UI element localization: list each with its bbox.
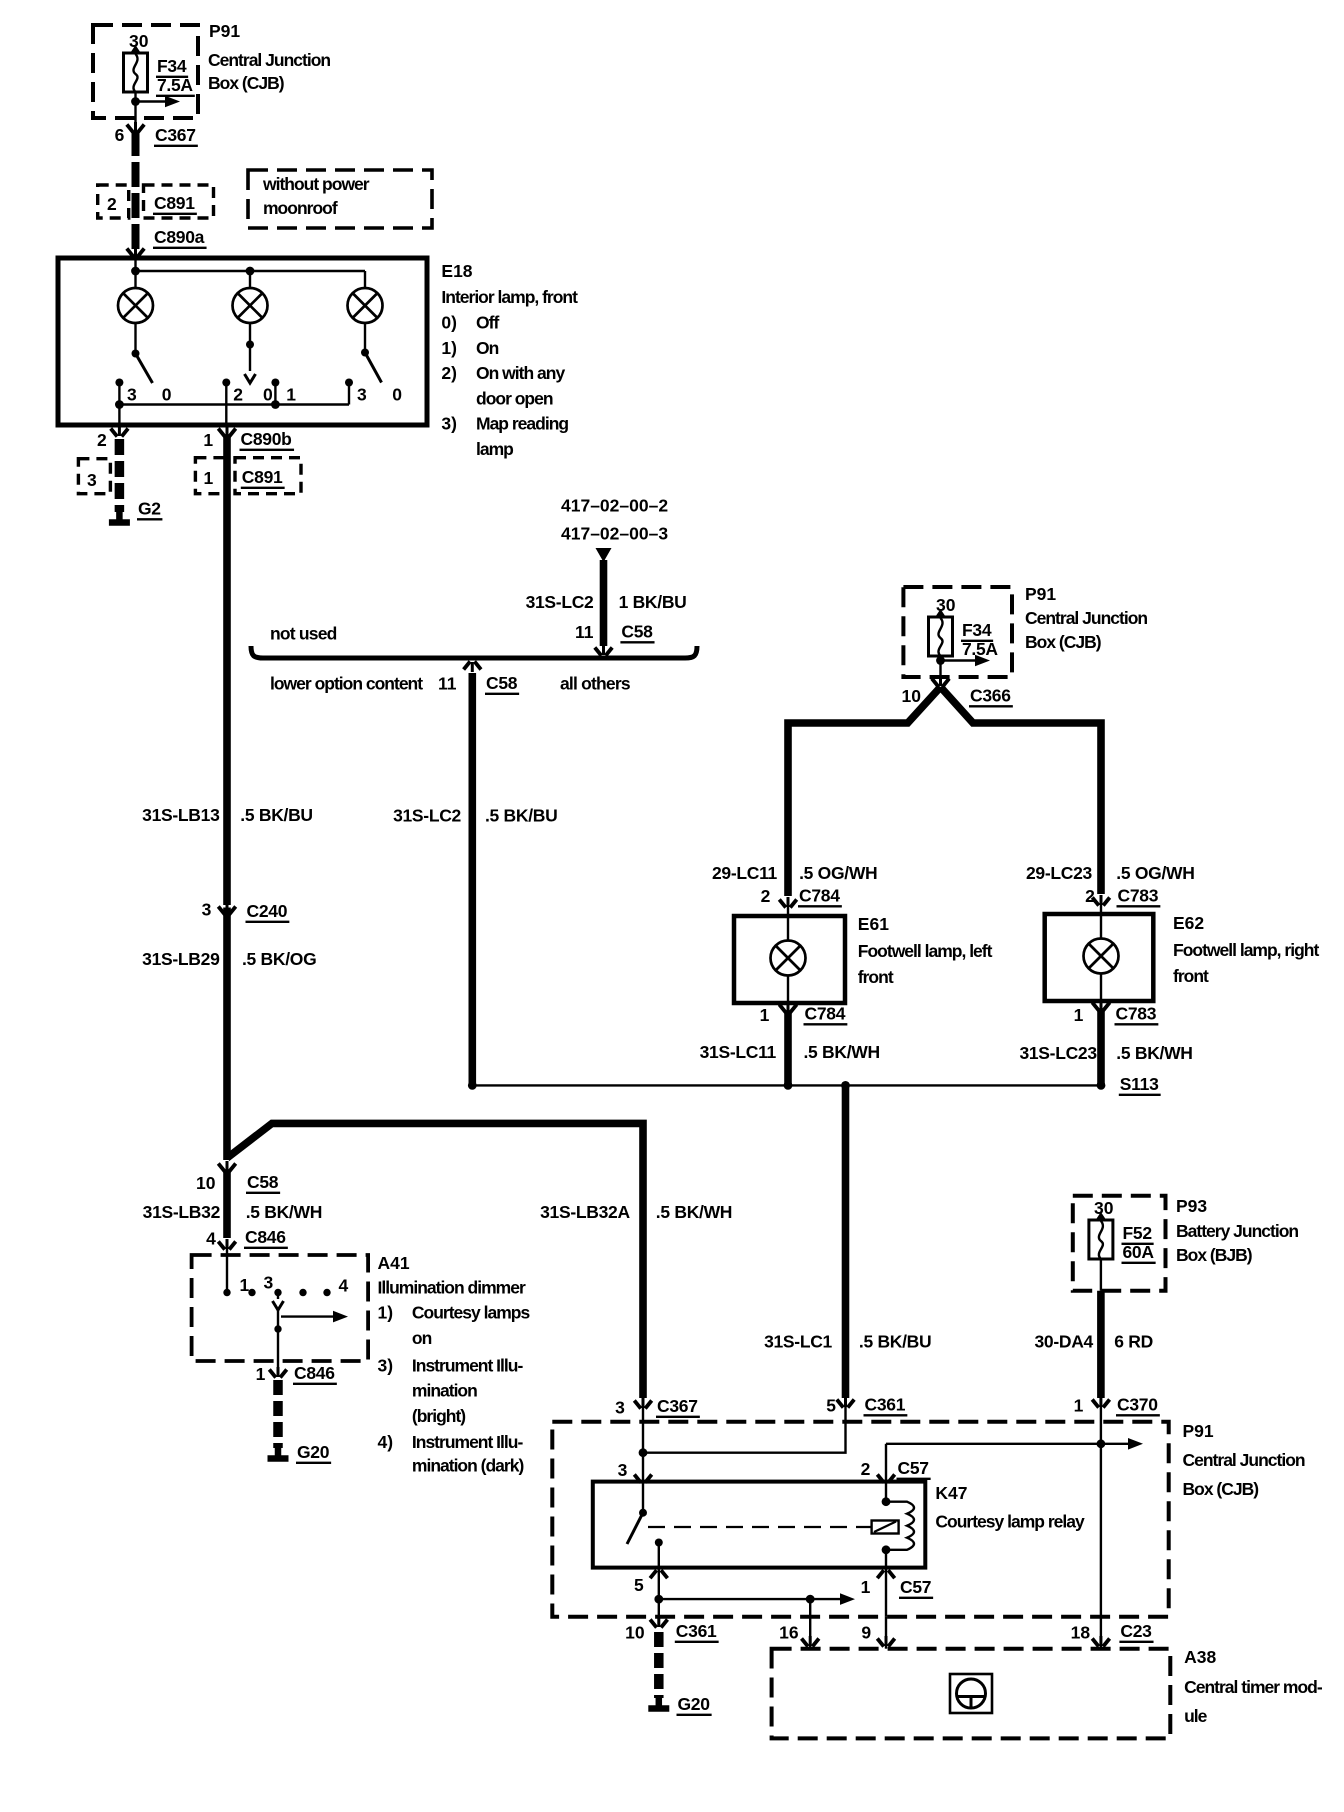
svg-text:3: 3 [618, 1460, 628, 1480]
svg-text:5: 5 [826, 1396, 836, 1416]
svg-text:A41: A41 [378, 1253, 410, 1273]
svg-text:C846: C846 [245, 1227, 286, 1247]
svg-text:.5 BK/WH: .5 BK/WH [656, 1202, 732, 1222]
svg-text:Central Junction: Central Junction [1025, 608, 1147, 628]
svg-text:1: 1 [203, 430, 213, 450]
svg-text:C784: C784 [805, 1004, 846, 1024]
svg-text:P91: P91 [1025, 584, 1056, 604]
svg-text:lower option content: lower option content [270, 674, 423, 694]
svg-text:0): 0) [441, 313, 457, 333]
svg-text:front: front [858, 967, 894, 987]
svg-text:mination: mination [412, 1381, 477, 1401]
svg-text:1: 1 [861, 1577, 871, 1597]
svg-text:.5 OG/WH: .5 OG/WH [799, 863, 877, 883]
svg-text:E61: E61 [858, 914, 889, 934]
svg-text:1: 1 [286, 385, 296, 405]
svg-text:30: 30 [1094, 1198, 1114, 1218]
svg-text:C891: C891 [154, 193, 195, 213]
svg-text:.5 BK/BU: .5 BK/BU [485, 806, 557, 826]
svg-text:.5 BK/OG: .5 BK/OG [242, 949, 316, 969]
svg-text:moonroof: moonroof [263, 198, 338, 218]
svg-text:mination (dark): mination (dark) [412, 1456, 524, 1476]
svg-text:3: 3 [87, 470, 97, 490]
svg-text:G2: G2 [138, 499, 161, 519]
svg-text:On with any: On with any [476, 363, 565, 383]
svg-text:C57: C57 [900, 1577, 931, 1597]
svg-text:C58: C58 [486, 673, 518, 693]
svg-text:(bright): (bright) [412, 1406, 465, 1426]
svg-text:Central timer mod-: Central timer mod- [1184, 1677, 1323, 1697]
svg-text:9: 9 [861, 1623, 871, 1643]
svg-text:F34: F34 [157, 56, 187, 76]
svg-text:C890b: C890b [241, 429, 292, 449]
svg-text:P93: P93 [1176, 1196, 1207, 1216]
svg-text:Box (CJB): Box (CJB) [1183, 1479, 1259, 1499]
svg-text:0: 0 [392, 385, 402, 405]
svg-text:door open: door open [476, 388, 553, 408]
svg-text:Footwell lamp, right: Footwell lamp, right [1173, 940, 1319, 960]
svg-text:K47: K47 [935, 1483, 967, 1503]
svg-text:10: 10 [625, 1623, 645, 1643]
svg-text:30-DA4: 30-DA4 [1034, 1332, 1093, 1352]
svg-text:Battery Junction: Battery Junction [1176, 1221, 1298, 1241]
svg-text:On: On [476, 338, 499, 358]
svg-text:1): 1) [378, 1303, 394, 1323]
svg-text:S113: S113 [1120, 1074, 1159, 1094]
svg-text:G20: G20 [297, 1442, 330, 1462]
svg-text:Illumination dimmer: Illumination dimmer [378, 1278, 526, 1298]
svg-text:1: 1 [760, 1005, 770, 1025]
svg-text:C367: C367 [657, 1396, 698, 1416]
svg-text:all others: all others [560, 674, 631, 694]
svg-text:1: 1 [256, 1364, 266, 1384]
svg-text:7.5A: 7.5A [962, 639, 998, 659]
svg-text:4: 4 [339, 1276, 349, 1296]
svg-text:11: 11 [438, 674, 457, 694]
svg-text:31S-LC2: 31S-LC2 [526, 592, 594, 612]
svg-text:P91: P91 [209, 21, 240, 41]
svg-text:not used: not used [270, 624, 337, 644]
svg-text:3): 3) [441, 414, 457, 434]
svg-text:3: 3 [264, 1273, 274, 1293]
svg-text:4): 4) [378, 1432, 394, 1452]
svg-text:C891: C891 [242, 467, 283, 487]
svg-text:front: front [1173, 966, 1209, 986]
svg-text:C783: C783 [1118, 886, 1159, 906]
svg-text:3: 3 [202, 900, 212, 920]
svg-text:lamp: lamp [476, 439, 513, 459]
svg-text:2): 2) [441, 363, 457, 383]
svg-text:10: 10 [196, 1173, 216, 1193]
svg-text:2: 2 [97, 430, 107, 450]
svg-text:Instrument Illu-: Instrument Illu- [412, 1432, 524, 1452]
svg-text:C846: C846 [294, 1363, 335, 1383]
svg-text:C361: C361 [865, 1395, 906, 1415]
svg-text:Map reading: Map reading [476, 414, 568, 434]
svg-text:29-LC11: 29-LC11 [712, 863, 778, 883]
svg-text:1): 1) [441, 338, 457, 358]
svg-text:P91: P91 [1183, 1421, 1214, 1441]
svg-text:1: 1 [1074, 1005, 1084, 1025]
svg-text:3: 3 [615, 1398, 625, 1418]
svg-text:6 RD: 6 RD [1114, 1332, 1153, 1352]
svg-text:Instrument Illu-: Instrument Illu- [412, 1356, 524, 1376]
svg-text:without power: without power [262, 174, 370, 194]
svg-text:C57: C57 [898, 1458, 929, 1478]
svg-text:Off: Off [476, 313, 499, 333]
svg-text:.5 BK/BU: .5 BK/BU [859, 1332, 931, 1352]
svg-text:3: 3 [357, 385, 367, 405]
svg-text:F34: F34 [962, 620, 992, 640]
svg-text:31S-LB13: 31S-LB13 [142, 805, 220, 825]
svg-text:A38: A38 [1184, 1647, 1216, 1667]
svg-text:4: 4 [206, 1229, 216, 1249]
svg-text:C784: C784 [799, 886, 840, 906]
svg-text:.5 OG/WH: .5 OG/WH [1116, 863, 1194, 883]
svg-text:C240: C240 [247, 901, 288, 921]
svg-text:.5 BK/WH: .5 BK/WH [246, 1202, 322, 1222]
svg-text:C367: C367 [155, 125, 196, 145]
svg-text:E62: E62 [1173, 913, 1204, 933]
svg-text:1: 1 [204, 468, 214, 488]
svg-text:C890a: C890a [154, 227, 205, 247]
svg-text:Courtesy lamps: Courtesy lamps [412, 1303, 531, 1323]
svg-text:Interior lamp, front: Interior lamp, front [441, 287, 578, 307]
svg-text:C58: C58 [621, 622, 653, 642]
svg-text:5: 5 [634, 1575, 644, 1595]
svg-text:10: 10 [902, 686, 922, 706]
svg-text:.5 BK/WH: .5 BK/WH [1116, 1043, 1192, 1063]
svg-text:C23: C23 [1120, 1621, 1152, 1641]
svg-text:G20: G20 [678, 1694, 711, 1714]
svg-text:31S-LB32A: 31S-LB32A [540, 1202, 630, 1222]
svg-text:2: 2 [1085, 886, 1095, 906]
svg-text:2: 2 [861, 1459, 871, 1479]
svg-text:31S-LC11: 31S-LC11 [700, 1042, 777, 1062]
svg-text:1 BK/BU: 1 BK/BU [619, 592, 687, 612]
svg-text:Footwell lamp, left: Footwell lamp, left [858, 941, 993, 961]
svg-text:31S-LC23: 31S-LC23 [1019, 1043, 1097, 1063]
svg-text:3: 3 [127, 385, 137, 405]
svg-text:Box (CJB): Box (CJB) [1025, 632, 1101, 652]
svg-text:31S-LB32: 31S-LB32 [143, 1202, 221, 1222]
svg-text:29-LC23: 29-LC23 [1026, 863, 1093, 883]
svg-text:Box (BJB): Box (BJB) [1176, 1245, 1252, 1265]
svg-text:Courtesy lamp relay: Courtesy lamp relay [935, 1512, 1085, 1532]
svg-text:0: 0 [162, 385, 172, 405]
svg-text:2: 2 [761, 886, 771, 906]
svg-text:C366: C366 [970, 686, 1011, 706]
svg-text:11: 11 [575, 622, 594, 642]
svg-text:417–02–00–2: 417–02–00–2 [561, 496, 668, 516]
svg-text:F52: F52 [1123, 1223, 1153, 1243]
svg-text:31S-LC1: 31S-LC1 [764, 1332, 832, 1352]
svg-text:2: 2 [233, 385, 243, 405]
svg-text:60A: 60A [1123, 1242, 1155, 1262]
svg-text:1: 1 [1074, 1396, 1084, 1416]
svg-text:Box (CJB): Box (CJB) [208, 73, 284, 93]
svg-text:0: 0 [263, 385, 273, 405]
svg-text:Central Junction: Central Junction [208, 50, 330, 70]
svg-text:31S-LB29: 31S-LB29 [142, 949, 220, 969]
svg-text:16: 16 [779, 1623, 799, 1643]
svg-text:E18: E18 [441, 261, 472, 281]
svg-text:6: 6 [115, 125, 125, 145]
svg-text:30: 30 [129, 31, 149, 51]
svg-text:.5 BK/WH: .5 BK/WH [804, 1042, 880, 1062]
svg-text:1: 1 [240, 1275, 250, 1295]
svg-text:18: 18 [1071, 1623, 1091, 1643]
svg-text:C370: C370 [1117, 1395, 1158, 1415]
svg-text:ule: ule [1184, 1706, 1208, 1726]
svg-text:C361: C361 [676, 1621, 717, 1641]
svg-text:7.5A: 7.5A [157, 75, 193, 95]
svg-text:Central Junction: Central Junction [1183, 1450, 1305, 1470]
svg-text:3): 3) [378, 1356, 394, 1376]
svg-text:.5 BK/BU: .5 BK/BU [240, 805, 312, 825]
svg-text:417–02–00–3: 417–02–00–3 [561, 524, 668, 544]
svg-text:31S-LC2: 31S-LC2 [393, 806, 461, 826]
svg-text:on: on [412, 1328, 432, 1348]
svg-text:C58: C58 [247, 1172, 279, 1192]
svg-text:2: 2 [107, 194, 117, 214]
svg-text:C783: C783 [1116, 1004, 1157, 1024]
